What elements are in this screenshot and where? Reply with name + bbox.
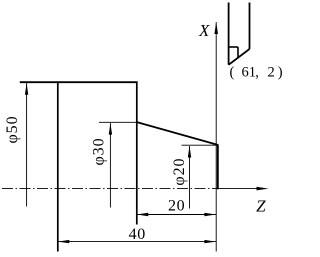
- part left edge / 40-dim extension line: [57, 82, 59, 252]
- φ20 arrowhead: [188, 146, 191, 158]
- Z axis line: [213, 188, 258, 190]
- tool right edge: [249, 3, 251, 50]
- svg-text:): ): [278, 65, 283, 81]
- svg-text:X: X: [198, 21, 210, 40]
- tool notch vertical: [237, 47, 239, 58]
- centerline (dash-dot): [2, 188, 213, 190]
- Z axis arrowhead: [257, 187, 269, 191]
- svg-text:,: ,: [255, 65, 259, 81]
- svg-text:Z: Z: [256, 197, 266, 216]
- tool cutting edge diagonal: [229, 49, 250, 65]
- svg-text:2: 2: [268, 65, 275, 81]
- φ30 dimension line: [109, 123, 111, 208]
- 40 dimension line: [58, 241, 216, 243]
- svg-text:φ50: φ50: [4, 116, 21, 144]
- 20 dimension line: [137, 214, 216, 216]
- φ30 arrowhead: [109, 123, 112, 135]
- φ50 arrowhead: [25, 83, 28, 95]
- φ30 extension line at slope start: [99, 121, 137, 123]
- svg-text:(: (: [230, 65, 235, 81]
- φ50 dimension line: [26, 83, 28, 207]
- svg-text:40: 40: [129, 226, 146, 243]
- 40 dim right arrowhead: [204, 240, 216, 243]
- part right edge: [217, 144, 219, 189]
- svg-text:φ20: φ20: [171, 158, 188, 186]
- 40 dim left arrowhead: [58, 240, 70, 243]
- 20 dim right arrowhead: [204, 213, 216, 216]
- φ20 extension line at right face: [182, 144, 219, 146]
- svg-text:61: 61: [242, 65, 257, 81]
- svg-text:20: 20: [168, 198, 185, 215]
- part top line (φ50 outline + extension): [20, 81, 138, 83]
- X axis arrowhead: [214, 22, 218, 34]
- tool left edge: [228, 3, 230, 65]
- φ20 dimension line: [189, 146, 191, 209]
- tool notch horizontal: [229, 46, 238, 48]
- svg-text:φ30: φ30: [91, 138, 108, 166]
- 20 dim left arrowhead: [137, 213, 149, 216]
- X axis line: [215, 22, 217, 252]
- part step edge at Z-20 / 20-dim extension line: [136, 82, 138, 225]
- taper slope: [137, 122, 218, 145]
